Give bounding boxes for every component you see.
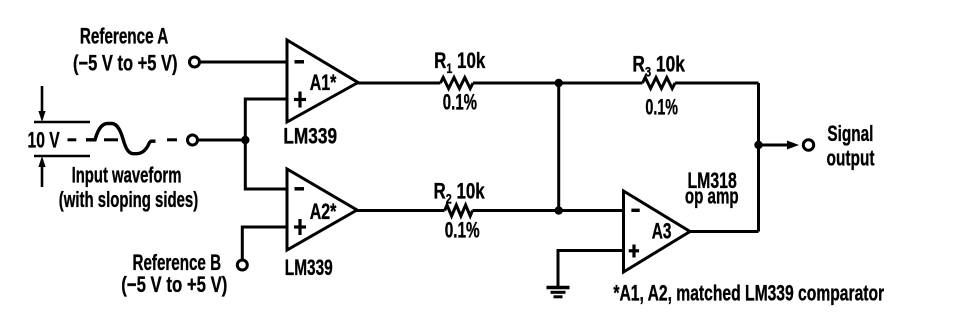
op-amp A3 — [624, 191, 691, 272]
svg-text:R3 10k: R3 10k — [632, 53, 685, 80]
node output junction — [754, 141, 762, 149]
node input junction — [241, 136, 249, 144]
wire A2 output to R2 — [356, 209, 445, 212]
svg-text:0.1%: 0.1% — [445, 219, 480, 243]
svg-text:0.1%: 0.1% — [443, 90, 477, 115]
arrowhead output — [787, 141, 799, 150]
dimension arrow 10V bottom — [34, 156, 90, 187]
terminal Reference B — [237, 260, 247, 270]
svg-text:LM339: LM339 — [285, 256, 333, 280]
wire summing vertical link — [557, 83, 560, 211]
wire output arrow — [759, 144, 791, 147]
svg-text:Signal: Signal — [827, 122, 873, 146]
wire R1 to node — [473, 82, 559, 85]
wire Reference B to A2 + input — [242, 227, 287, 260]
svg-text:A3: A3 — [652, 220, 672, 244]
wire A1 + feed and A2 - feed — [245, 99, 287, 189]
svg-text:A1*: A1* — [310, 72, 337, 96]
wire input terminal to junction — [198, 139, 246, 142]
op-amp A1 — [287, 40, 358, 122]
wire R3 to right corner — [675, 82, 759, 85]
svg-text:(−5 V to +5 V): (−5 V to +5 V) — [73, 51, 178, 76]
waveform dashed axis — [68, 138, 178, 141]
svg-text:*A1, A2, matched LM339 compara: *A1, A2, matched LM339 comparator — [613, 282, 884, 306]
wire Reference A to A1 inverting input — [200, 61, 288, 64]
svg-text:LM339: LM339 — [283, 125, 337, 149]
wire A3 output — [690, 230, 759, 233]
op-amp A2 — [287, 169, 357, 250]
svg-text:R1 10k: R1 10k — [434, 49, 485, 76]
terminal signal output — [803, 140, 813, 150]
resistor R3 — [643, 78, 676, 89]
node summing mid — [555, 206, 563, 214]
wire node to R3 — [559, 82, 643, 85]
terminal input waveform — [188, 135, 198, 145]
wire A1 output to R1 — [357, 82, 441, 85]
svg-text:10 V: 10 V — [28, 129, 60, 153]
svg-text:output: output — [827, 147, 876, 171]
node summing top — [555, 79, 563, 87]
svg-text:(with sloping sides): (with sloping sides) — [59, 187, 198, 212]
svg-text:op amp: op amp — [685, 184, 739, 208]
input waveform sine — [86, 124, 156, 154]
wire R2 to A3 inverting input — [473, 209, 624, 212]
ground — [547, 288, 570, 297]
svg-text:R2 10k: R2 10k — [434, 179, 485, 206]
terminal Reference A — [190, 57, 200, 67]
resistor R1 — [441, 78, 474, 89]
svg-text:Input waveform: Input waveform — [72, 163, 182, 188]
svg-text:0.1%: 0.1% — [645, 94, 678, 119]
dimension arrow 10V top — [34, 86, 90, 122]
wire right vertical feedback — [757, 83, 760, 232]
wire A3 + to ground — [558, 251, 624, 287]
svg-text:(−5 V to +5 V): (−5 V to +5 V) — [121, 273, 227, 298]
resistor R2 — [445, 205, 473, 216]
svg-text:Reference A: Reference A — [80, 25, 169, 49]
svg-text:A2*: A2* — [310, 201, 337, 225]
